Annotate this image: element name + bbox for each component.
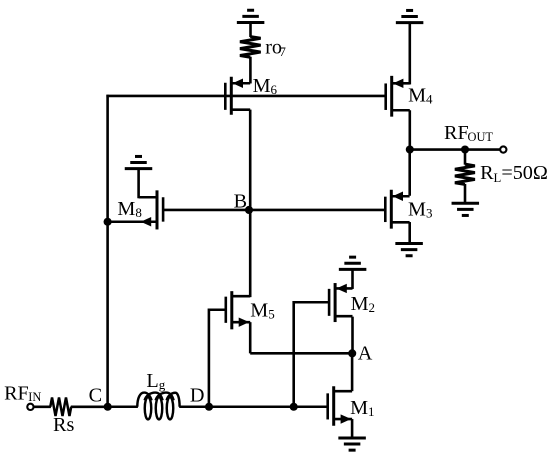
wire RL to ground (464, 184, 467, 204)
supply symbol above M4 (396, 10, 424, 22)
resistor Rs (50, 397, 71, 416)
node dot A (348, 349, 356, 357)
label B (234, 190, 247, 212)
wire M3 source to ground (408, 222, 411, 244)
svg-text:M3: M3 (408, 198, 432, 220)
pmos M6 (225, 77, 250, 115)
wire M5 source down (249, 322, 252, 353)
node dot M2 gate on D line (290, 403, 298, 411)
svg-text:M1: M1 (350, 397, 374, 419)
pmos M8 (108, 190, 163, 229)
resistor RL (455, 164, 475, 184)
wire M1 source to ground (351, 419, 354, 439)
svg-text:M4: M4 (408, 84, 433, 106)
node dot B (245, 206, 253, 214)
svg-text:ro7: ro7 (265, 36, 286, 59)
label RF_IN (4, 383, 41, 405)
label C (89, 385, 102, 407)
label M3 (408, 198, 432, 220)
label M6 (253, 75, 278, 97)
supply symbol above M8 (125, 156, 153, 168)
label Rs (53, 414, 74, 436)
supply symbol above M2 (339, 257, 367, 269)
node dot RL top (461, 146, 469, 154)
wire ro7 to M6 source (249, 57, 252, 84)
svg-text:Lg: Lg (146, 370, 165, 392)
node dot M8 source on rail (104, 218, 112, 226)
label RF_OUT (444, 122, 493, 144)
nmos M5 (226, 291, 250, 329)
node dot C (104, 403, 112, 411)
wire RFout to RL (464, 150, 467, 165)
resistor ro7 (240, 37, 261, 58)
svg-text:RFIN: RFIN (4, 383, 41, 405)
wire node A to M1 drain (351, 353, 354, 391)
pmos M3 (385, 190, 409, 229)
ground below M1 (338, 438, 366, 450)
svg-text:M5: M5 (250, 299, 274, 321)
wire RFin to Rs (33, 406, 51, 409)
label RL=50ohm (480, 162, 548, 185)
label M1 (350, 397, 374, 419)
label ro7 (265, 36, 286, 59)
label M4 (408, 84, 433, 106)
wire D to M1 gate (209, 405, 327, 408)
svg-text:M2: M2 (351, 293, 375, 315)
pmos M2 (329, 283, 352, 322)
ground below M3 (395, 244, 423, 256)
wire M6 drain to node B to M5 drain (249, 110, 252, 298)
wire supply to ro7 (249, 22, 252, 37)
wire M5 gate to node D (209, 309, 226, 407)
nmos M1 (328, 386, 352, 426)
pmos M4 (386, 76, 410, 117)
svg-text:Rs: Rs (53, 414, 74, 436)
label Lg (146, 370, 165, 392)
wire gate line C to M6/M4 gates (106, 95, 385, 98)
wire M2 gate to node D (294, 301, 330, 407)
svg-text:C: C (89, 385, 102, 407)
wire node B line M8 gate to M3 gate (163, 209, 384, 212)
label M2 (351, 293, 375, 315)
node dot D (205, 403, 213, 411)
wire RFout line (410, 148, 503, 151)
wire RFout node to M3 drain (408, 150, 411, 196)
svg-text:RL=50Ω: RL=50Ω (480, 162, 548, 185)
wire supply to M8 drain (137, 169, 140, 199)
wire node A line (250, 352, 352, 355)
ground below RL (452, 203, 480, 215)
inductor Lg (137, 393, 179, 420)
wire Rs to C (71, 406, 108, 409)
svg-text:M8: M8 (117, 198, 141, 220)
wire supply to M4 source (408, 23, 411, 85)
label M5 (250, 299, 274, 321)
wire supply to M2 source (351, 269, 354, 289)
svg-text:B: B (234, 190, 247, 212)
wire Lg to D (179, 405, 209, 408)
label A (358, 343, 373, 365)
wire M2 drain to node A (351, 317, 354, 354)
svg-text:D: D (190, 384, 205, 406)
svg-text:M6: M6 (253, 75, 278, 97)
svg-text:A: A (358, 343, 373, 365)
label D (190, 384, 205, 406)
svg-text:RFOUT: RFOUT (444, 122, 493, 144)
supply symbol above ro7 (237, 10, 265, 22)
terminal RF_OUT (500, 146, 506, 152)
wire left rail (node C column) (106, 95, 109, 407)
terminal RF_IN (27, 404, 33, 410)
wire M4 drain to RFout node (408, 110, 411, 150)
label M8 (117, 198, 141, 220)
wire C to Lg (108, 405, 138, 408)
node dot M4 drain (406, 146, 414, 154)
